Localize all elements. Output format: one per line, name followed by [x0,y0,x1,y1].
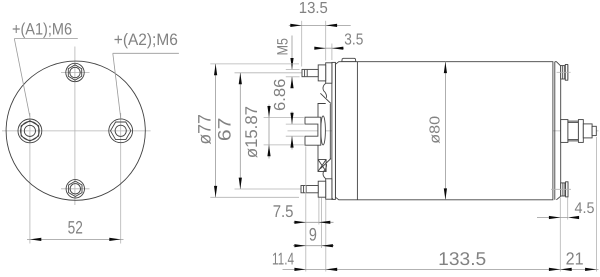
svg-text:ø77: ø77 [195,114,215,145]
top terminal stud M5: washer [326,63,332,83]
bottom-right bump [561,182,568,197]
label +(A2);M6 with leader [113,31,179,119]
datum extension line left [305,147,307,272]
dimension 67 [215,73,242,189]
extension 11.4 right [325,200,327,272]
extension 7.5 right [318,198,320,225]
svg-text:67: 67 [215,118,235,142]
extension 4.5 right [567,198,569,220]
svg-text:M5: M5 [275,38,292,55]
bracket lower slant [320,159,331,169]
svg-text:ø15.87: ø15.87 [242,106,261,158]
left view: vertical centerline [74,47,76,206]
top terminal stud M5: nut [318,65,326,81]
right terminal: threaded stud [583,124,592,138]
label +(A1);M6 with leader [12,20,78,117]
svg-text:+(A2);M6: +(A2);M6 [114,31,178,49]
pilot boss lens [321,116,326,145]
left view: vertical centerline through terminal A2 [120,113,122,244]
svg-text:133.5: 133.5 [438,248,486,269]
extension stud tip [596,137,598,272]
left view: horizontal tick through bottom bolt [61,188,90,190]
side view: endcap seam [554,62,556,200]
svg-text:6.86: 6.86 [272,78,289,111]
svg-text:4.5: 4.5 [575,200,595,217]
bottom terminal stud: nut [318,181,326,197]
terminal nut A1 [18,119,42,143]
svg-text:13.5: 13.5 [299,0,328,17]
dimension o77 [195,64,299,197]
dimension 7.5 [273,202,334,224]
dimension 13.5 [289,0,351,67]
connector prongs (E shape) [305,117,321,145]
svg-text:+(A1);M6: +(A1);M6 [12,20,72,38]
bracket lower hook curve [323,164,327,179]
right terminal: ring [578,120,583,143]
bottom mounting bolt [66,180,84,198]
top-right connector bump [561,65,568,81]
top terminal stud M5: shank [302,69,318,76]
side view: top stud centerline / 67 extension [235,72,332,74]
top-right bump centerline [557,71,571,73]
dimension 6.86 [272,78,304,149]
right terminal: tip [592,126,596,135]
left view: motor body circle [6,61,145,200]
side view: housing seam [356,62,358,200]
dimension 3.5 [314,31,363,60]
extension endcap face [559,198,561,272]
side view: endcap right face [555,62,561,200]
bracket lower vertical [317,145,319,159]
svg-text:52: 52 [68,218,83,238]
dimension o15.87 [242,105,304,159]
bracket upper slant [320,93,331,103]
bracket upper step [318,104,326,118]
svg-text:7.5: 7.5 [273,202,294,221]
bottom terminal stud: shank [301,186,318,193]
side view: main centerline [288,130,599,132]
bottom terminal stud: washer [326,179,332,199]
dimension 52 [27,218,124,241]
bracket web seam [329,104,331,160]
dimension o80 [428,62,448,200]
svg-text:3.5: 3.5 [344,31,363,48]
side view: plate bottom chamfer [330,197,333,200]
side view: end face plate [332,62,336,199]
right terminal: insulator base [561,120,568,143]
side view: bottom stud centerline / 67 extension [235,188,332,190]
dimension 4.5 [537,200,595,219]
bracket lower crossed box [318,160,326,172]
right terminal: insulator body [568,121,579,141]
svg-text:11.4: 11.4 [272,249,294,268]
left view: vertical centerline through terminal A1 [29,113,31,244]
terminal nut A2 [109,119,133,143]
extension 9 right [321,198,323,249]
left view: horizontal centerline [2,130,151,132]
side view: motor body [335,62,553,200]
dimension 9 [293,224,334,247]
svg-text:9: 9 [309,224,317,244]
svg-text:ø80: ø80 [428,116,444,144]
svg-text:21: 21 [566,248,584,268]
dimension M5 [275,36,300,89]
top mounting bolt [66,63,84,81]
bracket upper hook curve [323,83,327,98]
bottom-right bump centerline [551,188,571,190]
left view: horizontal tick through top bolt [61,72,90,74]
side view: top tab [342,58,356,61]
bottom dimension line 11.4 / 133.5 / 21 [272,248,599,271]
